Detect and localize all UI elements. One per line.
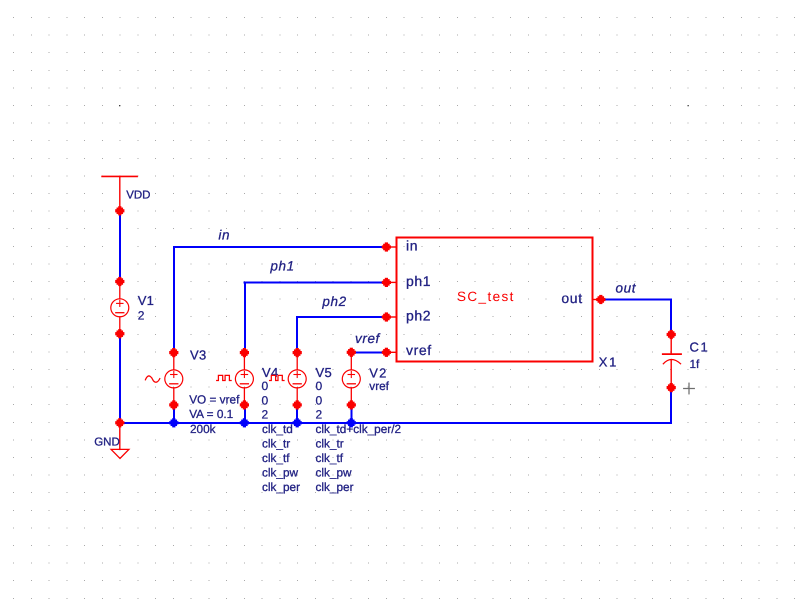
wire net ph1 vertical	[244, 282, 246, 352]
junction V2 top	[347, 348, 356, 357]
wire net out horizontal	[601, 299, 671, 301]
svg-text:V5: V5	[316, 365, 333, 380]
svg-text:0: 0	[316, 393, 323, 407]
svg-text:vref: vref	[355, 331, 381, 346]
vdd supply symbol	[102, 176, 137, 210]
svg-text:C1: C1	[690, 340, 710, 355]
svg-text:ph1: ph1	[406, 273, 431, 289]
wire net in vertical	[173, 247, 175, 353]
svg-text:0: 0	[262, 379, 269, 393]
wire vdd node to V1	[119, 211, 121, 282]
junction V5 top	[293, 348, 302, 357]
junction V1 top	[115, 277, 124, 286]
pin dot out	[596, 295, 605, 304]
svg-text:0: 0	[262, 393, 269, 407]
svg-text:in: in	[406, 238, 418, 254]
pin dot vref	[382, 348, 391, 357]
svg-text:clk_pw: clk_pw	[316, 466, 353, 480]
vsource V4 pulse	[217, 353, 254, 405]
V4 value rows	[262, 379, 301, 494]
svg-text:vref: vref	[369, 379, 389, 393]
wire ground bus	[120, 422, 671, 424]
junction bus left gnd	[115, 418, 124, 427]
wire net ph1 horizontal	[244, 281, 386, 283]
wire net in horizontal	[174, 246, 387, 248]
junction C1 top	[667, 330, 676, 339]
junction V4 top	[240, 348, 249, 357]
pin dot ph1	[382, 278, 391, 287]
pin dot ph2	[382, 312, 391, 321]
svg-text:clk_td+clk_per/2: clk_td+clk_per/2	[316, 422, 402, 436]
junction V4 bottom	[240, 400, 249, 409]
junction bus at V3	[169, 418, 178, 427]
capacitor plus polarity mark	[684, 383, 695, 394]
svg-text:clk_tr: clk_tr	[316, 437, 344, 451]
junction C1 bottom	[667, 383, 676, 392]
wire net vref	[351, 351, 386, 353]
vsource V3 sine	[145, 353, 182, 405]
svg-text:ph1: ph1	[269, 259, 294, 274]
svg-text:clk_tf: clk_tf	[316, 451, 344, 465]
capacitor C1	[663, 335, 681, 388]
svg-text:VDD: VDD	[126, 189, 150, 201]
svg-text:V1: V1	[138, 293, 155, 308]
subcircuit box X1 SC_test	[386, 237, 600, 361]
junction V1 bottom	[115, 329, 124, 338]
svg-text:VO = vref: VO = vref	[189, 393, 240, 407]
vsource V5 pulse	[270, 353, 307, 405]
junction bus at V5	[293, 418, 302, 427]
svg-text:clk_pw: clk_pw	[262, 466, 299, 480]
svg-text:clk_tf: clk_tf	[262, 451, 290, 465]
junction vdd pin	[115, 206, 124, 215]
svg-text:ph2: ph2	[406, 307, 431, 323]
svg-text:2: 2	[316, 408, 323, 422]
junction bus at V4	[240, 418, 249, 427]
junction V5 bottom	[293, 400, 302, 409]
svg-text:VA = 0.1: VA = 0.1	[189, 407, 233, 421]
svg-text:0: 0	[316, 379, 323, 393]
svg-text:ph2: ph2	[321, 294, 346, 309]
svg-text:1f: 1f	[690, 357, 701, 371]
svg-text:V3: V3	[190, 348, 207, 363]
svg-text:clk_per: clk_per	[262, 480, 300, 494]
svg-text:clk_td: clk_td	[262, 422, 293, 436]
svg-text:GND: GND	[94, 437, 120, 449]
vsource V2 dc	[342, 352, 360, 405]
svg-text:2: 2	[138, 309, 145, 323]
junction V2 bottom	[347, 400, 356, 409]
svg-text:clk_per: clk_per	[316, 480, 354, 494]
svg-text:vref: vref	[406, 342, 432, 358]
vsource V1	[111, 282, 129, 334]
svg-text:SC_test: SC_test	[457, 289, 515, 304]
wire C1 to bus	[670, 388, 672, 423]
wire V3 to bus	[173, 405, 175, 423]
wire net ph2 vertical	[296, 317, 298, 353]
svg-text:X1: X1	[599, 354, 618, 369]
svg-text:clk_tr: clk_tr	[262, 437, 290, 451]
V5 value rows	[316, 379, 402, 494]
junction V3 bottom	[169, 400, 178, 409]
ground symbol	[111, 423, 129, 459]
junction V3 top	[169, 348, 178, 357]
pin dot in	[382, 242, 391, 251]
svg-text:out: out	[561, 290, 582, 306]
wire V2 to bus	[350, 405, 352, 423]
svg-text:2: 2	[262, 408, 269, 422]
wire V4 to bus	[244, 405, 246, 423]
wire net ph2 horizontal	[297, 316, 386, 318]
wire net out vertical	[670, 300, 672, 335]
svg-text:out: out	[616, 281, 637, 296]
junction bus at V2	[347, 418, 356, 427]
svg-text:in: in	[218, 228, 230, 243]
svg-text:200k: 200k	[190, 422, 216, 436]
wire V1 to ground bus	[119, 334, 121, 423]
wire V5 to bus	[296, 405, 298, 423]
